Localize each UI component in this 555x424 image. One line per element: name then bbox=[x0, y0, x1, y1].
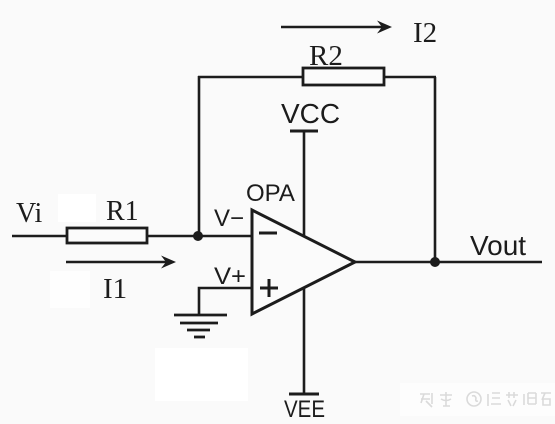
svg-text:R1: R1 bbox=[106, 196, 139, 227]
svg-text:V−: V− bbox=[214, 205, 244, 232]
op-amp U1 triangle bbox=[252, 210, 355, 314]
VEE wire from op-amp bbox=[303, 287, 306, 394]
svg-text:Vout: Vout bbox=[470, 230, 526, 261]
svg-text:I2: I2 bbox=[413, 17, 437, 49]
VCC bar bbox=[290, 130, 318, 133]
svg-text:V+: V+ bbox=[214, 263, 246, 290]
wire feedback right vertical bbox=[434, 77, 437, 262]
svg-text:R2: R2 bbox=[309, 40, 343, 72]
resistor R1 bbox=[67, 228, 147, 243]
wire feedback top right bbox=[384, 76, 436, 79]
VCC wire to op-amp bbox=[303, 131, 306, 237]
wire R1 to node bbox=[147, 235, 252, 238]
resistor R2 bbox=[303, 68, 384, 85]
op-amp plus input sign bbox=[260, 279, 278, 297]
wire feedback left vertical bbox=[198, 76, 201, 236]
arrow I1 bbox=[66, 256, 176, 269]
wire input left bbox=[12, 235, 68, 238]
svg-text:VEE: VEE bbox=[284, 396, 325, 423]
op-amp minus input sign bbox=[259, 232, 277, 235]
svg-text:VCC: VCC bbox=[281, 98, 340, 129]
ground bbox=[174, 315, 227, 337]
wire V+ input bbox=[199, 288, 252, 315]
node B junction dot bbox=[430, 257, 440, 267]
arrow I2 bbox=[281, 21, 392, 34]
watermark bbox=[420, 392, 551, 407]
VEE bar bbox=[289, 393, 319, 396]
wire feedback top left bbox=[198, 76, 303, 79]
node A junction dot bbox=[193, 231, 203, 241]
svg-text:I1: I1 bbox=[103, 273, 127, 305]
wire output bbox=[354, 261, 542, 264]
svg-text:OPA: OPA bbox=[246, 180, 295, 207]
svg-text:Vi: Vi bbox=[16, 198, 43, 229]
